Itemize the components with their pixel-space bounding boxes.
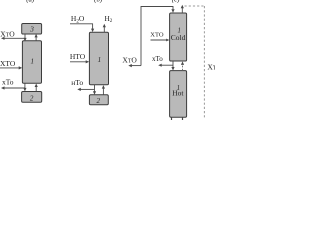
dashed wire up hot to cold [181, 61, 184, 70]
svg-text:(a): (a) [26, 0, 35, 3]
stub below hot box left [171, 117, 173, 120]
arrow XTO feed (middle left, into box 1) [0, 66, 22, 69]
arrow xTo out (bottom left) [1, 86, 25, 89]
wire up box2 to box1 (b) [102, 85, 105, 95]
svg-text:XTO: XTO [150, 32, 164, 39]
arrow HTO feed into box 1 (b) [70, 60, 89, 63]
wire down box1 to box2 (b) [93, 85, 96, 95]
reflux pipe (left riser to cold top) [141, 7, 173, 66]
svg-text:1: 1 [31, 58, 35, 66]
svg-text:3: 3 [29, 24, 34, 33]
column box 3 [22, 24, 42, 35]
arrowhead into cold top [171, 9, 174, 13]
svg-text:нTo: нTo [71, 78, 83, 87]
stub below hot box right [182, 117, 184, 120]
arrowhead H2O into box top [91, 29, 94, 32]
column box 1 (b) [89, 32, 108, 85]
svg-text:Cold: Cold [171, 33, 186, 42]
svg-text:xTo: xTo [152, 55, 163, 63]
svg-text:2: 2 [97, 97, 101, 105]
arrow XTO out (top left) [1, 37, 25, 40]
wire up box2 to box1 [35, 84, 38, 92]
cold column box [170, 13, 187, 61]
arrow hTo out (b bottom left) [77, 88, 94, 91]
arrow xTo out (between columns) [158, 64, 173, 67]
column box 2 [22, 92, 42, 103]
wire down cold to hot [171, 61, 174, 71]
hot column box [170, 71, 187, 118]
svg-text:Hot: Hot [172, 89, 184, 98]
svg-text:1: 1 [98, 56, 102, 64]
vent arrow up from cold top [181, 5, 184, 13]
svg-text:(b): (b) [94, 0, 103, 3]
svg-text:xTo: xTo [2, 78, 14, 87]
column box 1 [22, 41, 41, 84]
arrow XTO feed into cold box [151, 39, 170, 42]
wire down box1 to box2 [23, 83, 26, 91]
svg-text:XTO: XTO [0, 59, 16, 68]
pipe H2O feed into box 1 (b) [70, 24, 93, 30]
svg-text:HTO: HTO [70, 52, 86, 61]
wire down box3 to box1 [23, 34, 26, 41]
svg-text:(c): (c) [172, 0, 180, 3]
wire up box1 to box3 [35, 34, 38, 41]
dashed overhead line [185, 6, 205, 119]
svg-text:2: 2 [30, 94, 34, 102]
column box 2 (b) [89, 95, 108, 105]
arrow XTO out (c left) [128, 64, 141, 67]
vent H2 arrow up from box 1 (b) [103, 24, 106, 33]
